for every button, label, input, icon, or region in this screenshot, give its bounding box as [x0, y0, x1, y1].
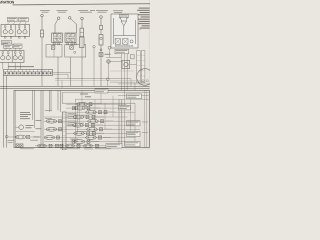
svg-text:VRATION: VRATION: [0, 1, 15, 5]
